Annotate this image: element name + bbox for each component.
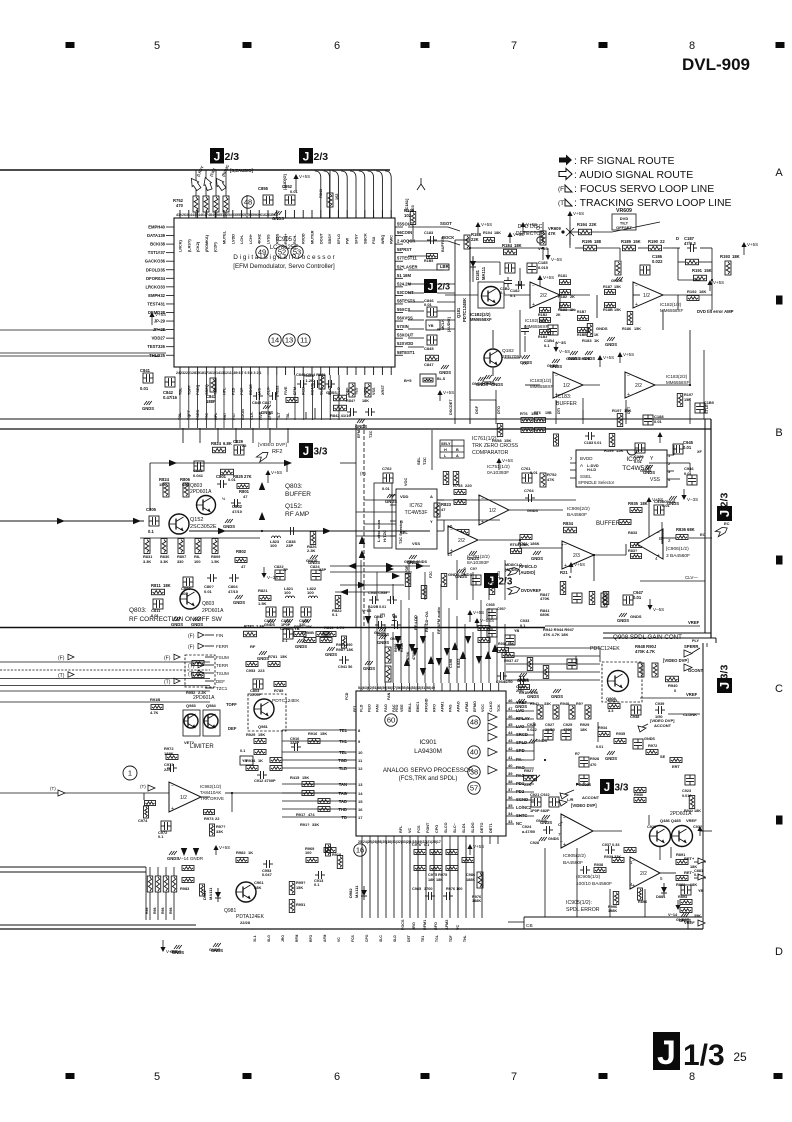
cap mid detector	[520, 325, 532, 365]
svg-text:(LRSY): (LRSY)	[187, 239, 191, 252]
text PDTC124EK Q908	[590, 644, 657, 654]
text VIDEO DVP lr	[559, 797, 597, 808]
svg-text:FST: FST	[232, 412, 236, 420]
svg-text:: TRACKING SERVO LOOP LINE: : TRACKING SERVO LOOP LINE	[574, 197, 732, 209]
svg-text:52*LASER: 52*LASER	[397, 264, 417, 269]
svg-text:SGND: SGND	[516, 797, 528, 802]
svg-text:TEST431: TEST431	[147, 301, 165, 306]
wires IC901 left pins in	[240, 730, 348, 817]
svg-text:ACCONT: ACCONT	[582, 795, 600, 800]
power V-3S mid	[261, 567, 278, 580]
svg-text:R836: R836	[676, 527, 687, 532]
svg-text:C976: C976	[412, 843, 421, 847]
svg-text:40: 40	[508, 763, 513, 768]
svg-text:GACKO36: GACKO36	[145, 259, 166, 264]
svg-text:C764: C764	[524, 488, 534, 493]
svg-text:V+5S: V+5S	[747, 242, 758, 247]
svg-text:GNDS: GNDS	[547, 364, 558, 368]
svg-text:V+5S: V+5S	[713, 280, 724, 285]
svg-text:HFL: HFL	[214, 412, 218, 420]
svg-text:BCKI38: BCKI38	[150, 242, 166, 247]
svg-text:YB: YB	[242, 759, 248, 763]
svg-text:PDTC124EK: PDTC124EK	[462, 298, 467, 322]
svg-text:36: 36	[508, 795, 513, 800]
svg-text:RF2: RF2	[272, 449, 282, 455]
svg-text:+: +	[627, 392, 630, 398]
svg-text:0.47/16: 0.47/16	[163, 395, 178, 400]
junction circle 52	[276, 246, 288, 258]
component grid below IC901	[412, 843, 475, 900]
svg-text:SFSY: SFSY	[355, 234, 359, 244]
svg-text:25: 25	[733, 1050, 747, 1064]
power V+5S cluster	[568, 562, 585, 573]
capacitor C187 and resistor	[672, 236, 712, 265]
svg-text:TLD: TLD	[339, 766, 347, 771]
svg-text:GNDS: GNDS	[325, 652, 337, 657]
svg-text:VREF: VREF	[686, 818, 697, 823]
svg-text:3/3: 3/3	[719, 665, 731, 680]
svg-text:R973: R973	[204, 816, 214, 821]
svg-text:FZD: FZD	[231, 387, 235, 395]
svg-text:2PD601A: 2PD601A	[193, 695, 215, 701]
svg-text:0.01: 0.01	[633, 595, 642, 600]
svg-text:GNDS: GNDS	[223, 524, 235, 529]
svg-text:47/10: 47/10	[232, 509, 243, 514]
svg-text:47K: 47K	[548, 231, 556, 236]
svg-text:0.1: 0.1	[510, 293, 516, 298]
svg-text:48: 48	[470, 718, 478, 727]
svg-text:IC761(1/2):: IC761(1/2):	[472, 436, 498, 442]
svg-text:474: 474	[308, 812, 315, 817]
resistor above ic905b	[612, 858, 624, 863]
svg-text:15K: 15K	[258, 732, 265, 737]
svg-text:V+5S: V+5S	[543, 275, 554, 280]
svg-text:LVDD: LVDD	[231, 234, 235, 244]
svg-text:15K: 15K	[633, 239, 641, 244]
wires crossing border	[183, 428, 288, 443]
table SEL HBL	[440, 440, 464, 458]
svg-text:H:LD: H:LD	[587, 468, 596, 472]
svg-text:D981: D981	[202, 890, 207, 900]
resistor R982 capacitor	[236, 850, 273, 877]
IC905 top pin names	[179, 230, 394, 252]
svg-text:RF:LDD: RF:LDD	[413, 615, 418, 630]
svg-text:TBL: TBL	[178, 412, 182, 420]
capacitors C926 C927 C925	[527, 722, 590, 743]
text PRC286 ACCONT	[560, 782, 600, 800]
resistor R197 capacitor C188	[612, 408, 664, 427]
svg-text:A: A	[430, 494, 433, 499]
svg-text:AFM1: AFM1	[441, 702, 445, 712]
svg-text:23P: 23P	[286, 543, 293, 548]
svg-text:R189: R189	[621, 239, 632, 244]
svg-text:18K 18K: 18K 18K	[428, 878, 443, 882]
svg-text:DTT: DTT	[627, 406, 631, 414]
wires DSP right pins	[408, 221, 460, 347]
text SPDL ERROR	[566, 900, 600, 913]
svg-text:(T): (T)	[140, 784, 146, 789]
svg-text:GNDS: GNDS	[377, 640, 389, 645]
svg-text:18K: 18K	[514, 243, 522, 248]
svg-text:R1BB: R1BB	[577, 333, 587, 337]
svg-text:GNDS: GNDS	[209, 947, 221, 952]
svg-text:R753: R753	[453, 483, 463, 488]
svg-text:PAS: PAS	[449, 704, 453, 712]
transistor Q182 2PB709A	[482, 348, 523, 385]
svg-text:IC751(1/2): IC751(1/2)	[487, 464, 510, 470]
resistors R181 R182 R183	[558, 274, 575, 312]
diode D181 MA111	[470, 257, 486, 280]
svg-text:+: +	[635, 302, 638, 308]
resistor R836 68K	[662, 527, 712, 540]
resistors R1B2 R1B3	[538, 308, 561, 340]
svg-text:14: 14	[358, 791, 363, 796]
svg-text:23P: 23P	[319, 567, 326, 572]
svg-text:2/3: 2/3	[719, 493, 731, 508]
svg-text:: AUDIO SIGNAL ROUTE: : AUDIO SIGNAL ROUTE	[574, 169, 693, 181]
svg-text:470K: 470K	[406, 651, 410, 660]
svg-text:FAN: FAN	[387, 692, 391, 700]
resistor below R189	[611, 261, 623, 283]
resistor network R752 470	[173, 170, 229, 218]
svg-text:C1B9: C1B9	[704, 401, 714, 405]
ground below C802	[223, 519, 235, 529]
svg-text:R935: R935	[628, 501, 639, 506]
page row letters right	[775, 167, 783, 958]
connector J2/3 vertical right	[717, 493, 732, 521]
svg-text:8A10393F: 8A10393F	[467, 560, 489, 566]
svg-text:14: 14	[447, 552, 453, 557]
svg-text:47: 47	[508, 706, 513, 711]
svg-text:FOCS: FOCS	[401, 919, 405, 930]
svg-text:VSS: VSS	[372, 387, 376, 395]
junction circle 49	[256, 246, 268, 258]
svg-text:R98?: R98?	[294, 624, 304, 629]
svg-text:TD: TD	[341, 815, 347, 820]
svg-text:ERT: ERT	[672, 764, 680, 769]
transistor Q803 lower	[180, 589, 224, 614]
svg-text:TRK ZERO CROSS: TRK ZERO CROSS	[472, 443, 519, 449]
svg-text:53: 53	[293, 248, 301, 257]
svg-text:FEO: FEO	[368, 704, 372, 712]
route arrows bundle 2	[396, 644, 498, 666]
svg-text:C923: C923	[682, 789, 691, 793]
svg-text:C93?: C93?	[693, 825, 703, 829]
svg-text:0.022: 0.022	[527, 727, 538, 732]
svg-text:THL: THL	[463, 935, 467, 942]
svg-text:DVD tilt error AMP: DVD tilt error AMP	[697, 309, 734, 314]
svg-text:2SC3052E: 2SC3052E	[190, 524, 217, 530]
svg-text:[AUDIO]: [AUDIO]	[447, 317, 451, 332]
svg-text:470K: 470K	[540, 596, 550, 601]
svg-text:R1B2: R1B2	[538, 313, 547, 317]
svg-text:DATA139: DATA139	[147, 233, 166, 238]
svg-text:R197: R197	[612, 408, 622, 413]
resistor R197 b	[677, 393, 713, 413]
transistor 2PD601A a	[650, 826, 671, 847]
svg-text:V−6S: V−6S	[362, 609, 372, 613]
wires rf continuation	[140, 463, 430, 538]
power arrows detector 3	[537, 275, 634, 363]
svg-text:188P: 188P	[206, 399, 216, 404]
svg-text:SPLD: SPLD	[516, 740, 527, 745]
text Q152 RF AMP	[285, 503, 309, 518]
svg-text:FCS: FCS	[351, 934, 355, 942]
svg-text:LBR: LBR	[440, 264, 449, 269]
svg-text:VREF: VREF	[686, 692, 698, 697]
vertical labels RF LDD	[413, 607, 461, 668]
svg-text:2/3: 2/3	[314, 151, 329, 163]
svg-text:TGD: TGD	[338, 758, 347, 763]
svg-text:R415: R415	[290, 775, 300, 780]
svg-text:CLV-: CLV-	[250, 411, 254, 420]
svg-text:R192: R192	[687, 289, 697, 294]
op-amp IC183 1/2	[530, 372, 583, 398]
svg-text:0.1: 0.1	[282, 638, 288, 643]
svg-text:C805: C805	[146, 507, 157, 512]
svg-text:2PD601A: 2PD601A	[190, 489, 212, 495]
svg-text:J: J	[428, 281, 434, 293]
svg-text:: FOCUS SERVO LOOP LINE: : FOCUS SERVO LOOP LINE	[574, 183, 714, 195]
svg-text:RFM: RFM	[295, 934, 299, 942]
IC905 bottom pin names	[179, 384, 385, 395]
resistor R841 top	[319, 170, 339, 218]
transistor 2PD601A b	[672, 826, 693, 847]
svg-text:22: 22	[660, 239, 665, 244]
svg-text:49: 49	[258, 248, 266, 257]
svg-text:TAN: TAN	[339, 782, 347, 787]
svg-text:7P: 7P	[283, 567, 288, 572]
svg-text:43: 43	[508, 738, 513, 743]
svg-text:LVG: LVG	[497, 571, 501, 578]
svg-text:33: 33	[508, 819, 513, 824]
svg-text:R821: R821	[258, 588, 268, 593]
svg-text:GNDS: GNDS	[531, 556, 543, 561]
svg-text:RCH-: RCH-	[293, 234, 297, 244]
resistor R822	[332, 596, 342, 618]
svg-text:C762: C762	[382, 466, 392, 471]
svg-text:XRST: XRST	[381, 384, 385, 395]
svg-text:57TEST11: 57TEST11	[397, 256, 417, 261]
svg-text:C941 56: C941 56	[338, 665, 352, 669]
svg-text:0.01: 0.01	[530, 470, 539, 475]
svg-text:57: 57	[470, 784, 478, 793]
svg-text:FIN: FIN	[216, 633, 223, 638]
svg-text:0.01: 0.01	[204, 589, 213, 594]
capacitors C845 C846 C847	[404, 298, 454, 401]
wires right of bundle	[506, 648, 600, 680]
power V-14 GNDR	[167, 845, 230, 861]
svg-text:RFM1: RFM1	[423, 920, 427, 930]
svg-text:RF:CD−OA: RF:CD−OA	[424, 611, 429, 632]
svg-text:FSEQ: FSEQ	[196, 385, 200, 395]
svg-text:GNDS: GNDS	[536, 739, 547, 743]
svg-text:STLE: STLE	[705, 404, 709, 414]
svg-text:VC: VC	[337, 937, 341, 942]
svg-text:FERR: FERR	[216, 644, 229, 649]
pencil video dvp accont	[638, 718, 675, 732]
svg-text:R104: R104	[483, 231, 493, 235]
svg-text:38: 38	[508, 779, 513, 784]
wire JP- from left	[0, 329, 166, 331]
svg-text:39: 39	[508, 771, 513, 776]
svg-text:GNSS: GNSS	[326, 391, 337, 395]
resistors R847 R841 cluster	[540, 570, 609, 637]
svg-text:51 16M: 51 16M	[397, 273, 411, 278]
svg-text:R98: R98	[161, 908, 165, 914]
svg-text:33K: 33K	[544, 702, 551, 706]
svg-text:RCH+: RCH+	[284, 233, 288, 244]
svg-text:J: J	[717, 682, 732, 689]
transistor Q152 RF amp	[169, 514, 217, 534]
svg-text:SLD1: SLD1	[462, 823, 466, 833]
variable resistor VR609	[612, 208, 636, 230]
svg-text:1.5K: 1.5K	[256, 624, 265, 629]
resistor R195 100	[575, 239, 602, 251]
svg-text:2/2: 2/2	[540, 293, 547, 299]
resistor R198	[492, 424, 511, 444]
svg-text:WRQ: WRQ	[381, 235, 385, 244]
svg-text:VOC: VOC	[404, 478, 408, 486]
page row squares right	[776, 296, 783, 825]
svg-text:GNDS: GNDS	[295, 644, 307, 649]
parts right of bundle	[527, 658, 577, 679]
svg-text:GNDS: GNDS	[617, 618, 629, 623]
svg-text:R195: R195	[582, 239, 593, 244]
svg-text:3/3: 3/3	[615, 783, 629, 794]
resistor R825 27K	[221, 469, 252, 479]
connector J2/3 mid	[424, 279, 450, 293]
svg-text:TBL: TBL	[286, 412, 290, 420]
capacitor C805	[146, 507, 159, 534]
svg-text:PDTC124EK: PDTC124EK	[272, 698, 300, 704]
svg-text:C847: C847	[424, 362, 434, 367]
svg-text:R824: R824	[211, 441, 222, 446]
svg-text:LCH-: LCH-	[240, 234, 244, 244]
resistor R824 6.8K	[211, 441, 232, 453]
svg-text:DFOR034: DFOR034	[146, 276, 166, 281]
svg-text:Q984: Q984	[206, 703, 217, 708]
svg-text:RFL: RFL	[399, 825, 403, 833]
svg-text:C9?: C9?	[470, 567, 478, 571]
connector J3/3 vertical right	[717, 665, 732, 693]
svg-text:J: J	[214, 150, 221, 164]
wire top bus	[0, 169, 390, 171]
svg-text:TST1#37: TST1#37	[148, 250, 166, 255]
svg-text:IC183(1/2): IC183(1/2)	[530, 378, 552, 383]
wires SPDL drops	[545, 815, 712, 929]
text IC905 2/2	[563, 853, 586, 866]
svg-text:100: 100	[305, 850, 312, 855]
svg-text:3700: 3700	[424, 887, 432, 891]
grounds IC761	[448, 569, 473, 579]
svg-text:VSS: VSS	[412, 541, 420, 546]
wire RF out	[189, 528, 430, 534]
wire CLV	[640, 575, 705, 581]
svg-text:V+5S: V+5S	[299, 174, 310, 179]
resistors R841 R842 below DSP	[304, 373, 351, 418]
wires q181 area	[445, 256, 478, 295]
resistors R187 R186	[596, 285, 641, 347]
svg-text:1K: 1K	[594, 338, 599, 343]
svg-text:GNDS: GNDS	[167, 856, 179, 861]
svg-text:VR609: VR609	[616, 208, 632, 214]
svg-text:TILT: TILT	[277, 412, 281, 420]
svg-text:B: B	[775, 427, 782, 439]
svg-text:B+5: B+5	[404, 378, 412, 383]
wire VREF rail left	[0, 627, 545, 629]
svg-text:+: +	[560, 820, 563, 826]
box disc scan selector	[374, 483, 392, 548]
svg-text:186K: 186K	[530, 541, 540, 546]
svg-text:LVSS: LVSS	[267, 234, 271, 244]
wires vertical EFM1 TZC	[356, 424, 373, 628]
svg-text:YB: YB	[428, 323, 434, 328]
svg-text:[VIDEO DVP]: [VIDEO DVP]	[258, 442, 287, 448]
resistor R896	[638, 888, 648, 904]
svg-text:GNDS GNDS: GNDS GNDS	[472, 382, 495, 386]
svg-text:−: −	[560, 839, 563, 845]
svg-text:R95B: R95B	[400, 643, 404, 652]
resistors Q908 collector	[638, 663, 658, 677]
svg-text:a.47/50: a.47/50	[522, 829, 535, 834]
svg-text:FSUM: FSUM	[216, 655, 229, 660]
svg-text:FZC: FZC	[429, 571, 433, 578]
svg-text:C912 4700P: C912 4700P	[254, 778, 276, 783]
svg-text:VEE: VEE	[400, 704, 404, 712]
resistor left of C947	[601, 593, 607, 607]
svg-text:0.01: 0.01	[424, 302, 433, 307]
spacer hidden	[0, 0, 1, 1]
svg-text:C929: C929	[647, 825, 656, 829]
resistor R976	[472, 872, 483, 903]
svg-text:IC906(2/2): IC906(2/2)	[567, 506, 590, 512]
capacitors C935 area	[486, 603, 539, 695]
svg-text:R98? 18K: R98? 18K	[336, 648, 354, 652]
text 2PD601A label	[193, 695, 215, 701]
svg-text:(T: (T	[558, 200, 564, 207]
svg-text:V+5S: V+5S	[473, 844, 484, 849]
svg-text:RF CORRECTION ON/OFF SW: RF CORRECTION ON/OFF SW	[129, 616, 223, 623]
op-amp buffer 2/3	[561, 541, 594, 569]
svg-text:RT6: RT6	[520, 411, 528, 416]
svg-text:TBL: TBL	[179, 387, 183, 395]
capacitors C910 C912	[240, 736, 301, 783]
transistor Q181	[470, 282, 504, 322]
svg-text:1K: 1K	[594, 333, 599, 337]
svg-text:FONT: FONT	[426, 822, 430, 833]
svg-text:FLD: FLD	[360, 704, 364, 712]
svg-text:DEF: DEF	[216, 679, 225, 684]
svg-text:77C: 77C	[205, 413, 209, 420]
svg-text:R916: R916	[308, 731, 318, 736]
svg-text:GNDS: GNDS	[374, 631, 385, 635]
svg-text:1.2K: 1.2K	[306, 378, 315, 383]
svg-text:JP-29: JP-29	[154, 319, 166, 324]
svg-text:MD8/CLO: MD8/CLO	[505, 563, 522, 567]
svg-text:+: +	[532, 302, 535, 308]
svg-text:(F: (F	[558, 186, 564, 193]
svg-text:TZC1: TZC1	[216, 686, 228, 691]
resistor row R831 R830 R807	[140, 538, 222, 564]
svg-text:BL.S: BL.S	[437, 377, 446, 381]
svg-text:39K: 39K	[694, 914, 701, 918]
op-amp IC906 1/2	[637, 529, 671, 561]
svg-text:YB: YB	[514, 629, 520, 633]
svg-text:DSCDET: DSCDET	[449, 399, 453, 415]
text Q908 SPDL GAIN CONT	[613, 634, 700, 643]
svg-text:IC762: IC762	[409, 503, 423, 509]
